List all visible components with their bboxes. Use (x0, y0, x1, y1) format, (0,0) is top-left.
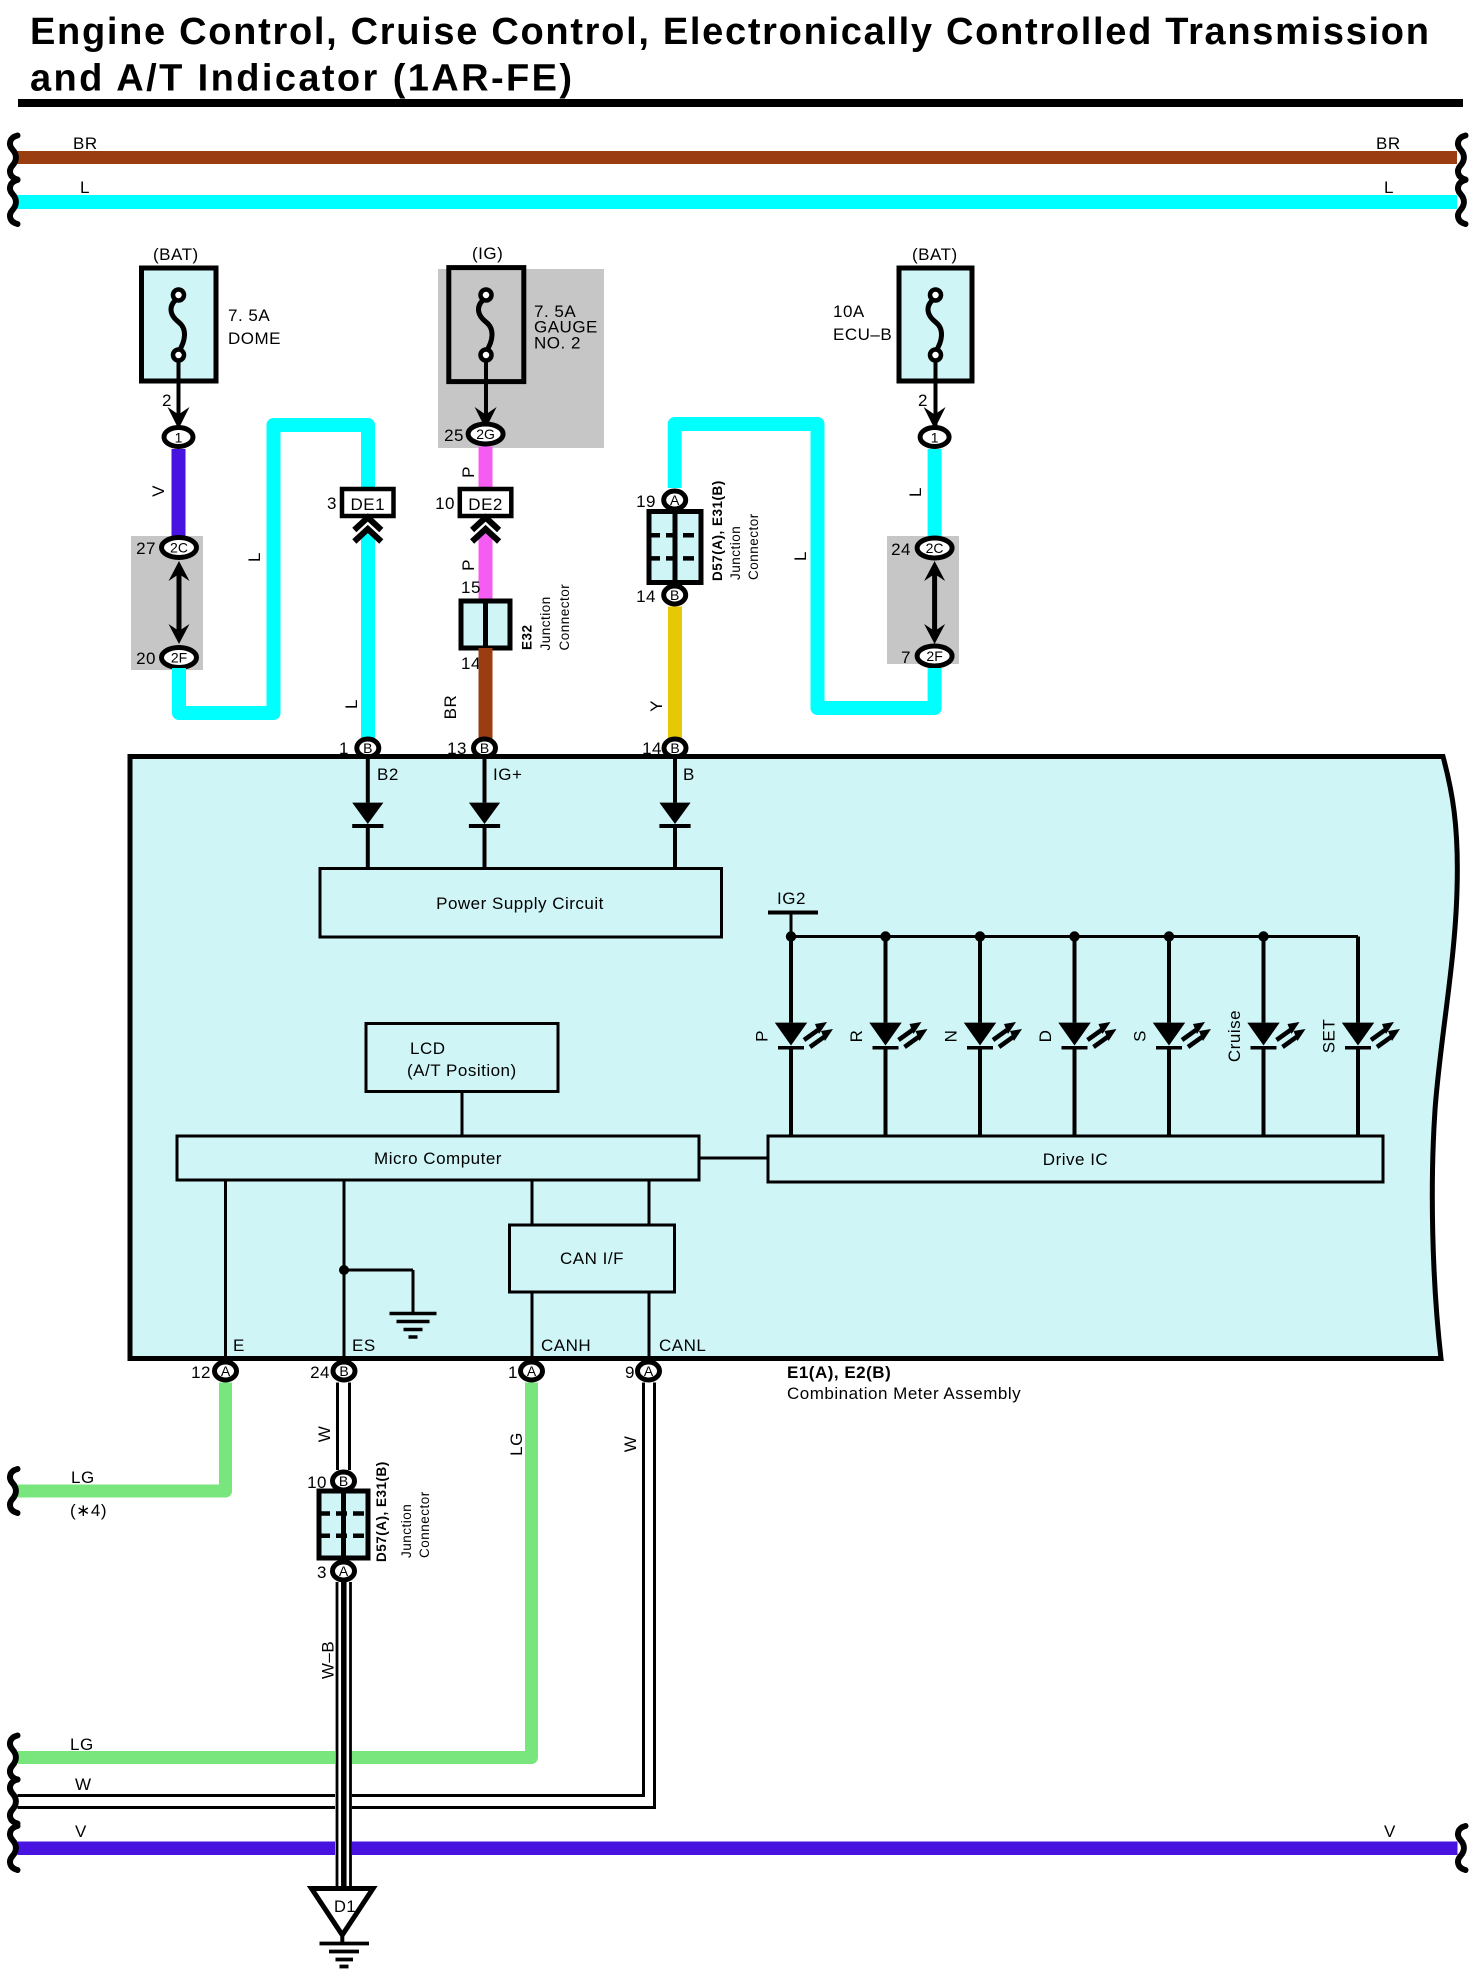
svg-text:(BAT): (BAT) (912, 245, 958, 264)
svg-text:12: 12 (191, 1363, 211, 1382)
svg-text:W–B: W–B (319, 1641, 338, 1679)
svg-text:10A: 10A (833, 302, 865, 321)
svg-text:24: 24 (891, 540, 911, 559)
svg-text:LG: LG (507, 1432, 526, 1456)
svg-text:V: V (75, 1822, 87, 1841)
svg-text:Micro Computer: Micro Computer (374, 1149, 502, 1168)
micro computer box (177, 1136, 699, 1180)
svg-text:P: P (459, 559, 478, 571)
svg-text:SET: SET (1320, 1019, 1339, 1054)
wire micro computer to drive IC (699, 1157, 768, 1160)
svg-text:2G: 2G (476, 426, 495, 442)
LED D (1069, 931, 1079, 941)
svg-text:3: 3 (327, 494, 337, 513)
svg-text:L: L (80, 178, 90, 197)
junction connector D57/E31 box (bottom) (319, 1491, 368, 1558)
ground (signal) (412, 1270, 415, 1312)
diode B (659, 803, 690, 828)
junction pin 14 B (664, 586, 686, 604)
svg-text:Connector: Connector (746, 513, 761, 580)
junction connector D57/E31 pin 10 B (333, 1472, 355, 1490)
svg-text:14: 14 (461, 654, 481, 673)
meter pin 13 (B) (474, 739, 496, 757)
svg-text:(IG): (IG) (472, 244, 503, 263)
diode IG+ (469, 803, 500, 828)
svg-text:Combination Meter Assembly: Combination Meter Assembly (787, 1384, 1021, 1403)
svg-text:V: V (149, 485, 168, 497)
svg-text:7: 7 (901, 648, 911, 667)
svg-text:BR: BR (1376, 134, 1401, 153)
wire E (224, 1180, 227, 1356)
svg-text:D57(A), E31(B): D57(A), E31(B) (374, 1461, 389, 1562)
break symbol W canl (10, 1780, 18, 1824)
svg-text:A: A (670, 492, 680, 508)
svg-text:LG: LG (70, 1735, 94, 1754)
wire LG (E pin, *4) (18, 1383, 226, 1492)
svg-text:Junction: Junction (728, 526, 743, 580)
diode B2 (352, 803, 383, 828)
connector oval 1 (DOME) (164, 428, 193, 447)
svg-text:Power Supply Circuit: Power Supply Circuit (436, 894, 604, 913)
wire L (cyan) right fuse (928, 449, 942, 537)
wire Y (yellow) (668, 607, 682, 740)
svg-text:2F: 2F (926, 648, 942, 664)
CAN I/F box (510, 1225, 675, 1292)
svg-text:B: B (363, 740, 372, 756)
wire pin to 2G (484, 360, 488, 426)
break symbol BR left (10, 136, 18, 180)
svg-text:2C: 2C (170, 540, 188, 556)
meter pin 14 (B) (664, 739, 686, 757)
svg-text:CANH: CANH (541, 1336, 591, 1355)
svg-text:10: 10 (435, 494, 455, 513)
connector pin 24 2C (917, 538, 952, 558)
combination meter assembly box (130, 757, 1457, 1359)
connector oval 1 (ECU-B) (920, 428, 949, 447)
junction connector D57/E31 box (top) (649, 512, 701, 583)
svg-text:Cruise: Cruise (1225, 1010, 1244, 1062)
wire IG2 bus (791, 935, 1358, 938)
svg-text:W: W (315, 1426, 334, 1443)
wire W-B to ground (335, 1582, 352, 1888)
svg-text:B: B (683, 765, 695, 784)
meter pin 24 (B) bottom (333, 1362, 355, 1380)
svg-text:2C: 2C (926, 540, 944, 556)
svg-text:B: B (670, 587, 679, 603)
wire P (pink) upper (479, 447, 493, 490)
svg-text:E32: E32 (520, 624, 535, 650)
svg-text:E1(A), E2(B): E1(A), E2(B) (787, 1363, 891, 1382)
connector pin 27 2C (162, 538, 197, 558)
svg-text:(∗4): (∗4) (70, 1501, 107, 1520)
wire pin stub IG+ (483, 759, 487, 803)
svg-text:A: A (527, 1363, 537, 1379)
junction connector pin 3 A (333, 1562, 355, 1580)
svg-text:A: A (339, 1563, 349, 1579)
svg-text:ECU–B: ECU–B (833, 325, 892, 344)
connector DE2 (460, 489, 512, 516)
wire ES (343, 1180, 346, 1356)
meter pin 1 (A) bottom (521, 1362, 543, 1380)
svg-text:V: V (1384, 1822, 1396, 1841)
LED P (786, 931, 796, 941)
svg-text:B: B (339, 1363, 348, 1379)
fuse 7.5A GAUGE NO.2 (449, 268, 524, 382)
svg-text:Connector: Connector (417, 1491, 432, 1558)
svg-text:R: R (847, 1030, 866, 1043)
svg-text:and A/T Indicator (1AR-FE): and A/T Indicator (1AR-FE) (30, 58, 574, 100)
svg-text:3: 3 (317, 1563, 327, 1582)
svg-text:Connector: Connector (557, 584, 572, 651)
connector pin 7 2F (917, 646, 952, 666)
pass-through arrow 2C-2F right (932, 568, 937, 637)
svg-text:BR: BR (441, 695, 460, 720)
svg-text:B2: B2 (377, 765, 399, 784)
svg-text:A: A (221, 1363, 231, 1379)
svg-text:B: B (339, 1473, 348, 1489)
wire W-B black core (341, 1582, 347, 1888)
drive IC box (768, 1136, 1383, 1182)
connector DE1 (342, 489, 394, 516)
break symbol V left (10, 1826, 18, 1870)
svg-text:L: L (906, 487, 925, 497)
svg-text:IG+: IG+ (493, 765, 522, 784)
power supply circuit box (320, 869, 722, 938)
wire LG (CANH) (18, 1383, 532, 1758)
connector pin 20 2F (162, 648, 197, 668)
svg-text:2: 2 (918, 391, 928, 410)
svg-text:P: P (459, 466, 478, 478)
svg-text:20: 20 (136, 649, 156, 668)
ground D1 (312, 1889, 374, 1936)
break symbol LG canh (10, 1736, 18, 1780)
svg-text:15: 15 (461, 578, 481, 597)
break symbol V right (1458, 1826, 1466, 1870)
svg-text:L: L (1384, 178, 1394, 197)
svg-text:CAN I/F: CAN I/F (560, 1249, 624, 1268)
LED S (1164, 931, 1174, 941)
svg-text:DE2: DE2 (468, 495, 503, 514)
svg-text:2: 2 (162, 391, 172, 410)
fuse 10A ECU-B (899, 268, 972, 381)
connector 2C/2F gray block right (887, 536, 959, 664)
meter pin 9 (A) bottom (638, 1362, 660, 1380)
svg-text:ES: ES (352, 1336, 376, 1355)
svg-text:19: 19 (636, 492, 656, 511)
svg-text:B: B (480, 740, 489, 756)
wire W (ES) (336, 1383, 339, 1471)
wire pin 2 to oval 1 (934, 360, 938, 426)
wire bus L (cyan) (15, 195, 1457, 209)
svg-text:14: 14 (636, 587, 656, 606)
wire CANL stub lower (648, 1292, 651, 1356)
svg-text:D: D (1036, 1030, 1055, 1043)
svg-text:P: P (753, 1030, 772, 1042)
svg-text:(A/T Position): (A/T Position) (407, 1061, 517, 1080)
meter pin 12 (A) bottom (215, 1362, 237, 1380)
svg-text:7. 5A: 7. 5A (228, 306, 270, 325)
wire BR (brown) (479, 648, 493, 739)
fuse 7.5A DOME (142, 268, 217, 381)
svg-text:27: 27 (136, 539, 156, 558)
svg-text:B: B (670, 740, 679, 756)
svg-text:24: 24 (310, 1363, 330, 1382)
break symbol L right (1458, 180, 1466, 224)
svg-text:Junction: Junction (399, 1504, 414, 1558)
connector oval 25 2G (468, 424, 503, 444)
wire LCD to micro computer (461, 1092, 464, 1137)
svg-text:Drive IC: Drive IC (1043, 1150, 1108, 1169)
svg-text:25: 25 (444, 426, 464, 445)
LED Cruise (1258, 931, 1268, 941)
pass-through arrow 2C-2F (177, 568, 182, 637)
svg-text:Junction: Junction (538, 596, 553, 650)
gray block (IG circuit) (438, 269, 604, 448)
wire L cyan below DE1 (361, 533, 375, 739)
svg-text:L: L (245, 552, 264, 562)
break symbol BR right (1458, 136, 1466, 180)
connector 2C/2F gray block left (131, 536, 203, 670)
svg-text:W: W (75, 1775, 92, 1794)
break symbol L left (10, 180, 18, 224)
junction connector E32 (461, 601, 510, 648)
junction connector D57(A) E31(B) pin 19 A (664, 491, 686, 509)
svg-text:E: E (233, 1336, 245, 1355)
svg-text:IG2: IG2 (777, 889, 806, 908)
wire L cyan loop (right) (675, 424, 935, 708)
svg-text:DOME: DOME (228, 329, 281, 348)
svg-text:W: W (621, 1436, 640, 1453)
svg-text:1: 1 (175, 430, 183, 446)
wire pin stub B2 (366, 759, 370, 803)
svg-text:D1: D1 (334, 1898, 356, 1916)
wire pin stub B (673, 759, 677, 803)
svg-text:DE1: DE1 (351, 495, 386, 514)
wire CANH stub lower (531, 1292, 534, 1356)
LED SET (1356, 937, 1360, 1023)
svg-text:Y: Y (647, 700, 666, 712)
svg-text:LCD: LCD (410, 1039, 446, 1058)
svg-text:2F: 2F (171, 650, 187, 666)
svg-text:D57(A), E31(B): D57(A), E31(B) (710, 480, 725, 581)
svg-text:Engine Control, Cruise Control: Engine Control, Cruise Control, Electron… (30, 11, 1431, 53)
svg-text:N: N (942, 1030, 961, 1043)
node ES junction (339, 1265, 349, 1275)
meter pin 1 (B) (357, 739, 379, 757)
LED N (975, 931, 985, 941)
wire W (CANL) (18, 1383, 644, 1796)
wire bus V (violet) (18, 1842, 1458, 1856)
svg-text:CANL: CANL (659, 1336, 706, 1355)
svg-text:LG: LG (71, 1468, 95, 1487)
svg-text:BR: BR (73, 134, 98, 153)
break symbol LG (10, 1469, 18, 1513)
wire bus BR (brown) (15, 151, 1457, 164)
wire P (pink) lower (479, 533, 493, 601)
wire CANL stub upper (648, 1180, 651, 1225)
wire pin 2 to connector 1 (177, 360, 181, 426)
svg-text:L: L (791, 551, 810, 561)
svg-text:1: 1 (931, 430, 939, 446)
wire L cyan loop (left) (179, 425, 368, 713)
svg-text:NO. 2: NO. 2 (534, 334, 581, 353)
LCD (A/T Position) box (366, 1024, 558, 1092)
LED R (880, 931, 890, 941)
svg-text:S: S (1131, 1030, 1150, 1042)
svg-text:9: 9 (625, 1363, 635, 1382)
wire V (violet) (172, 449, 186, 537)
svg-text:(BAT): (BAT) (153, 245, 199, 264)
wire CANH stub upper (531, 1180, 534, 1225)
svg-text:A: A (644, 1363, 654, 1379)
svg-text:L: L (342, 699, 361, 709)
svg-text:1: 1 (508, 1363, 518, 1382)
